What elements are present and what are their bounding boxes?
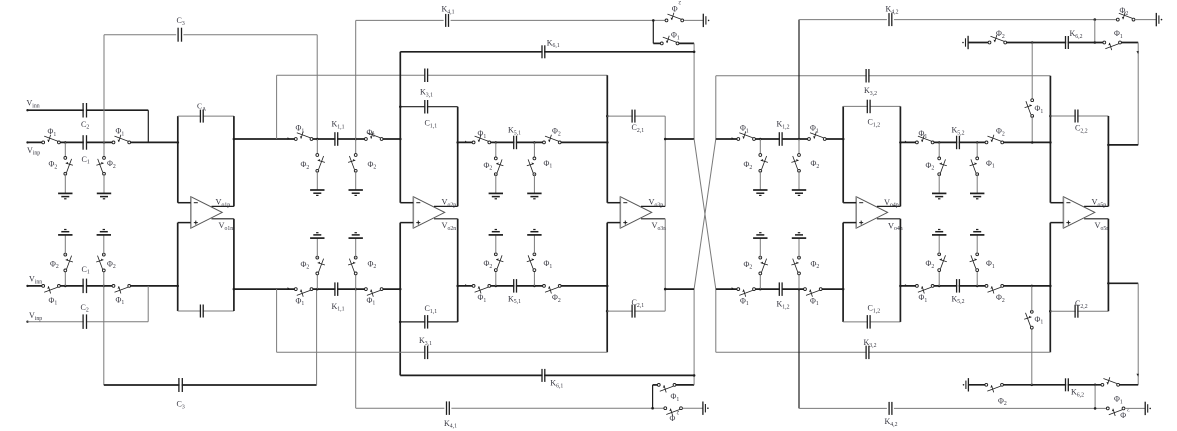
- switch Phi1 (K12 left): [740, 137, 753, 141]
- wire rise: [355, 273, 357, 289]
- wire C11 top rail: [400, 106, 457, 108]
- switch Phi1 (vertical, top): [1030, 102, 1034, 115]
- wire C21 bottom rail: [607, 310, 665, 312]
- ground up: [489, 234, 503, 236]
- switch Phi1 (top-left cluster): [663, 41, 676, 45]
- wire K31 bottom rail: [277, 351, 608, 353]
- wire to ground: [316, 171, 318, 190]
- signal tick: [732, 137, 735, 139]
- junction: [976, 285, 979, 288]
- capacitor K11: [336, 137, 338, 141]
- switch Phi1 (K11 bottom right): [367, 287, 380, 291]
- wire C11 bottom rail: [400, 321, 458, 323]
- switch Phi2 (bottom-right): [1109, 406, 1122, 410]
- wire Vinp bottom rail: [28, 321, 149, 323]
- junction: [664, 138, 667, 141]
- junction: [693, 374, 696, 377]
- switch Phi2 (top-left cluster): [668, 18, 681, 22]
- wire rise: [759, 273, 761, 289]
- wire op2 plus input: [400, 222, 413, 224]
- junction: [899, 141, 902, 144]
- capacitor CA: [201, 114, 203, 118]
- switch Phi1 (bottom-left cluster): [660, 383, 673, 387]
- capacitor K12 bottom: [780, 287, 782, 291]
- wire op1 plus input: [178, 222, 191, 224]
- wire stage5 output rail top: [1108, 144, 1138, 146]
- wire stage4 output rail bottom: [900, 285, 1050, 287]
- junction: [1031, 41, 1034, 44]
- wire K32 bottom riser: [715, 289, 717, 352]
- wire to ground: [938, 235, 940, 254]
- wire Phi1 bottom branch rail: [653, 384, 659, 386]
- wire Phi1 bottom riser lower: [1031, 328, 1033, 385]
- junction: [1094, 407, 1097, 410]
- wire op4 n output: [877, 218, 901, 220]
- ground up: [932, 234, 946, 236]
- wire op3 p output: [641, 205, 665, 207]
- signal tick: [1136, 374, 1138, 377]
- switch Phi1 (input series, top): [45, 140, 58, 144]
- wire Phi1 riser upper: [1031, 43, 1033, 101]
- wire drop: [938, 142, 940, 158]
- wire to ground: [355, 171, 357, 190]
- switch Phi1 to ground (K51 right): [532, 160, 536, 173]
- wire block4 left vertical: [842, 106, 844, 202]
- wire drop: [355, 139, 357, 155]
- wire Vinn corner down: [147, 110, 149, 142]
- wire Vinp corner up: [147, 286, 149, 322]
- wire Vinn bottom rail: [28, 285, 178, 287]
- switch Phi1 (K12 right): [811, 137, 824, 141]
- wire to ground: [533, 235, 535, 254]
- wire stage4 input rail: [716, 138, 843, 140]
- capacitor stub (bottom-right): [1144, 402, 1146, 415]
- capacitor C22: [1076, 114, 1078, 118]
- capacitor K52: [957, 140, 959, 144]
- capacitor C2 bottom: [84, 320, 86, 324]
- wire block5 bottom-left vertical: [1049, 223, 1051, 353]
- wire K62 rail: [968, 42, 1138, 44]
- wire drop: [533, 142, 535, 158]
- node Vinp (bottom input terminal): [26, 321, 28, 323]
- switch Phi1 (K62 right): [1106, 41, 1119, 45]
- junction: [606, 115, 609, 118]
- junction: [456, 285, 459, 288]
- capacitor C21: [633, 114, 635, 118]
- capacitor C11 bottom: [425, 320, 427, 324]
- capacitor C11: [425, 105, 427, 109]
- wire op5 p output: [1084, 205, 1108, 207]
- wire C3 bottom right riser: [316, 289, 318, 385]
- wire to ground: [316, 238, 318, 258]
- switch Phi1 to ground (K51 bottom right): [532, 256, 536, 269]
- capacitor K51 bottom: [514, 284, 516, 288]
- switch Phi1 (K51 bottom left): [475, 284, 488, 288]
- wire K31 rail: [277, 74, 608, 76]
- wire op3 n output: [641, 218, 665, 220]
- junction: [399, 288, 402, 291]
- wire drop: [759, 139, 761, 155]
- wire cluster right riser: [693, 43, 695, 139]
- wire K62-K42 bottom link: [1094, 385, 1096, 409]
- wire block4 bottom-left vertical: [842, 223, 844, 322]
- wire block2 bottom-left vertical: [399, 223, 401, 376]
- switch Phi1 to ground (K52 bottom right): [975, 256, 979, 269]
- wire block1 bottom-left vertical: [177, 223, 179, 311]
- junction: [354, 138, 357, 141]
- capacitor stub (K62 left): [962, 42, 964, 44]
- switch Phi2 (top-right): [1119, 18, 1132, 22]
- switch Phi2 to ground (K52 bottom left): [937, 256, 941, 269]
- capacitor K11 bottom: [336, 287, 338, 291]
- wire op5 plus input: [1050, 222, 1063, 224]
- wire C12 top rail: [843, 105, 900, 107]
- capacitor K31: [425, 73, 427, 77]
- junction: [938, 285, 941, 288]
- wire drop to Phi2: [64, 142, 66, 158]
- wire block3 right vertical top: [664, 116, 666, 206]
- wire C21 top rail: [607, 115, 665, 117]
- wire rise to Phi2: [103, 270, 105, 286]
- junction: [664, 288, 667, 291]
- wire op2 p output: [434, 205, 458, 207]
- ground: [349, 189, 363, 191]
- wire to ground: [938, 174, 940, 193]
- junction: [533, 285, 536, 288]
- wire rise: [938, 270, 940, 286]
- signal tick: [732, 287, 735, 289]
- capacitor K52 bottom: [957, 284, 959, 288]
- wire drop to Phi2: [103, 142, 105, 158]
- wire C3 bottom riser: [103, 286, 105, 385]
- ground up: [97, 234, 111, 236]
- capacitor C12 bottom: [868, 320, 870, 324]
- capacitor K62: [1066, 40, 1068, 44]
- junction: [316, 288, 319, 291]
- junction: [495, 285, 498, 288]
- wire to ground: [976, 235, 978, 254]
- wire CA bottom rail: [178, 310, 234, 312]
- junction: [233, 138, 236, 141]
- capacitor K62 bottom: [1066, 383, 1068, 387]
- wire stage2 output rail: [458, 141, 608, 143]
- wire to ground: [798, 171, 800, 190]
- junction: [899, 285, 902, 288]
- wire K62 bottom rail: [968, 384, 1138, 386]
- ground: [970, 192, 984, 194]
- wire op3 minus input: [607, 202, 620, 204]
- switch Phi1 (input series, bottom): [45, 284, 58, 288]
- wire block2 left vertical: [399, 52, 401, 203]
- switch Phi2 (K52 right): [988, 140, 1001, 144]
- signal tick: [288, 287, 291, 289]
- wire op2 minus input: [400, 202, 413, 204]
- junction: [759, 288, 762, 291]
- ground up: [310, 237, 324, 239]
- junction: [606, 310, 609, 313]
- switch Phi2 to ground (input, right): [102, 159, 106, 172]
- capacitor K41 bottom: [447, 406, 449, 410]
- capacitor K12: [780, 137, 782, 141]
- wire K61 bottom rail: [400, 374, 694, 376]
- wire rise: [533, 270, 535, 286]
- signal tick: [1136, 51, 1138, 54]
- op-amp U5: [1063, 197, 1094, 229]
- wire op5 n output: [1084, 218, 1108, 220]
- wire to ground: [103, 174, 105, 194]
- wire block1 right vertical top: [233, 116, 235, 206]
- wire cluster drop: [652, 20, 654, 43]
- wire drop: [495, 142, 497, 158]
- wire drop: [798, 139, 800, 155]
- wire cluster riser: [693, 289, 695, 385]
- junction: [399, 105, 402, 108]
- junction: [1049, 141, 1052, 144]
- wire rise: [798, 273, 800, 289]
- junction: [456, 141, 459, 144]
- node Vinn (top input terminal): [26, 109, 28, 111]
- wire Phi1 riser lower: [1031, 116, 1033, 142]
- junction: [1031, 285, 1034, 288]
- capacitor C3: [179, 33, 181, 37]
- switch Phi2 to ground (input bottom, left): [63, 256, 67, 269]
- wire rise: [316, 273, 318, 289]
- capacitor C3 bottom: [180, 383, 182, 387]
- wire drop: [976, 142, 978, 158]
- wire block5 right vertical top: [1107, 116, 1109, 206]
- wire K32 left riser: [715, 76, 717, 139]
- ground: [753, 189, 767, 191]
- junction: [316, 138, 319, 141]
- ground: [527, 192, 541, 194]
- wire K42 bottom riser: [798, 289, 800, 408]
- junction: [1049, 115, 1052, 118]
- junction: [533, 141, 536, 144]
- wire C22 top rail: [1050, 115, 1108, 117]
- wire block4 right vertical top: [899, 106, 901, 206]
- ground: [489, 192, 503, 194]
- wire crossover diagonal B: [694, 139, 716, 289]
- capacitor K42 bottom: [890, 406, 892, 410]
- capacitor K32 bottom: [867, 350, 869, 354]
- junction: [798, 138, 801, 141]
- junction: [651, 407, 654, 410]
- signal tick: [465, 284, 468, 286]
- junction: [64, 285, 67, 288]
- ground: [58, 192, 72, 194]
- junction: [1094, 384, 1097, 387]
- capacitor stub (top-right): [1155, 13, 1157, 26]
- junction input node A: [64, 141, 67, 144]
- wire C3 rail: [104, 34, 176, 36]
- switch Phi2 (bottom-left cluster): [667, 406, 680, 410]
- wire K42 riser: [798, 20, 800, 139]
- junction: [1094, 41, 1097, 44]
- svg-text:Φ: Φ: [670, 414, 676, 423]
- wire block3 bottom-right vertical: [664, 219, 666, 311]
- switch Phi1 (input series 2, bottom): [115, 284, 128, 288]
- wire to ground: [759, 171, 761, 190]
- wire block4 bottom-right vertical: [899, 219, 901, 322]
- switch Phi2 to ground (K51 left): [494, 160, 498, 173]
- junction: [399, 321, 402, 324]
- wire to ground: [64, 174, 66, 194]
- junction: [842, 138, 845, 141]
- wire op3 plus input: [607, 222, 620, 224]
- wire block5 left vertical: [1049, 76, 1051, 203]
- op-amp U4: [856, 197, 887, 229]
- capacitor K61: [543, 50, 545, 54]
- wire to ground: [64, 235, 66, 255]
- wire drop: [316, 139, 318, 155]
- junction: [103, 285, 106, 288]
- switch Phi2 (K51 bottom right): [546, 284, 559, 288]
- capacitor K31 bottom: [425, 350, 427, 354]
- wire to cap stub: [683, 407, 703, 409]
- switch Phi1 (K12 bottom right): [807, 287, 820, 291]
- wire cluster rise: [652, 385, 654, 408]
- wire block2 right vertical top: [457, 107, 459, 207]
- switch Phi1 (vertical, bottom): [1030, 313, 1034, 326]
- ground: [97, 192, 111, 194]
- wire op2 n output: [434, 218, 458, 220]
- wire K32 rail: [716, 75, 1051, 77]
- switch Phi2 (K62 bottom left): [988, 383, 1001, 387]
- ground up: [792, 237, 806, 239]
- switch Phi1 (K52 bottom left): [918, 284, 931, 288]
- junction: [652, 19, 655, 22]
- switch Phi1 (K11 right): [367, 137, 380, 141]
- wire stage4 output rail: [900, 141, 1050, 143]
- signal tick: [905, 141, 908, 143]
- wire crossover diagonal A: [694, 139, 716, 289]
- switch Phi2 to ground (K11 bottom right): [354, 259, 358, 272]
- junction: [1094, 18, 1097, 21]
- wire corner to stage5 output: [1137, 43, 1139, 145]
- wire K31 left riser: [276, 75, 278, 139]
- wire to cap stub: [684, 19, 703, 21]
- capacitor K41: [446, 18, 448, 22]
- capacitor CA bottom: [201, 309, 203, 313]
- switch Phi2 to ground (K11 left): [315, 157, 319, 170]
- wire rise to Phi2: [64, 270, 66, 286]
- switch Phi2 to ground (input bottom, right): [102, 256, 106, 269]
- wire to ground: [495, 174, 497, 193]
- wire to ground: [759, 238, 761, 258]
- switch Phi2 (K62 left): [991, 41, 1004, 45]
- junction: [693, 51, 696, 54]
- switch Phi2 (K52 bottom right): [988, 284, 1001, 288]
- capacitor stub (top-left): [702, 14, 704, 27]
- wire Vinp rail: [28, 141, 178, 143]
- svg-text:Φ: Φ: [1120, 411, 1126, 420]
- wire to cap stub: [1125, 407, 1145, 409]
- ground: [932, 192, 946, 194]
- wire K41 bottom rail: [356, 407, 445, 409]
- ground up: [527, 234, 541, 236]
- junction: [759, 138, 762, 141]
- wire to ground: [355, 238, 357, 258]
- switch Phi1 (K11 bottom left): [297, 287, 310, 291]
- wire K41 bottom riser: [355, 289, 357, 408]
- junction: [1031, 384, 1034, 387]
- wire block3 left vertical: [606, 75, 608, 202]
- switch Phi1 (K12 bottom left): [740, 287, 753, 291]
- wire stage3 output rail: [665, 138, 694, 140]
- capacitor C2: [84, 108, 86, 112]
- junction: [1107, 282, 1110, 285]
- junction: [177, 141, 180, 144]
- ground: [310, 189, 324, 191]
- switch Phi2 to ground (K11 right): [354, 157, 358, 170]
- svg-text:2: 2: [676, 409, 679, 415]
- signal tick: [465, 141, 468, 143]
- wire C3 right riser: [316, 35, 318, 139]
- wire K61 rail: [400, 51, 694, 53]
- junction: [1049, 310, 1052, 313]
- junction: [354, 288, 357, 291]
- node Vinn (bottom input terminal): [26, 285, 28, 287]
- capacitor stub (K62 bottom left): [963, 384, 965, 386]
- switch Phi1 (K51 left): [475, 140, 488, 144]
- wire Vinn rail: [28, 109, 149, 111]
- wire to ground: [976, 174, 978, 193]
- wire K41 rail: [356, 19, 444, 21]
- wire to ground: [495, 235, 497, 254]
- wire stage1 output rail: [234, 138, 400, 140]
- switch Phi2 (K51 right): [546, 140, 559, 144]
- wire op4 p output: [877, 205, 901, 207]
- wire output riser to bottom cluster: [1137, 283, 1139, 385]
- wire to ground: [798, 238, 800, 258]
- op-amp U3: [620, 197, 651, 229]
- ground up: [58, 234, 72, 236]
- capacitor C1 bottom: [84, 284, 86, 288]
- junction: [606, 141, 609, 144]
- wire Phi1 bottom riser upper: [1031, 286, 1033, 312]
- switch Phi1 (input series 2, top): [115, 140, 128, 144]
- junction: [606, 285, 609, 288]
- switch Phi1 (K11 left): [297, 137, 310, 141]
- wire stage4 input rail bottom: [716, 288, 843, 290]
- wire block5 bottom-right vertical: [1107, 219, 1109, 311]
- wire C3 bottom rail: [104, 384, 317, 386]
- wire K42-K62 link: [1094, 20, 1096, 43]
- junction: [976, 141, 979, 144]
- ground up: [970, 234, 984, 236]
- junction input node B: [103, 141, 106, 144]
- junction: [1049, 285, 1052, 288]
- wire op1 n output: [212, 218, 234, 220]
- switch Phi2 to ground (K12 bottom right): [797, 259, 801, 272]
- wire op1 minus input: [178, 202, 191, 204]
- capacitor C1: [84, 140, 86, 144]
- switch Phi1 to ground (K52 right): [975, 160, 979, 173]
- junction: [1031, 141, 1034, 144]
- ground up: [753, 237, 767, 239]
- wire K41 riser: [355, 20, 357, 139]
- wire op4 minus input: [843, 202, 856, 204]
- wire CA top rail: [178, 115, 234, 117]
- wire K42 rail: [799, 19, 887, 21]
- switch Phi1 (K62 bottom right): [1104, 383, 1117, 387]
- op-amp U2: [413, 197, 444, 229]
- junction: [233, 288, 236, 291]
- wire op4 plus input: [843, 222, 856, 224]
- capacitor K51: [514, 140, 516, 144]
- wire stage1 output rail bottom: [234, 288, 400, 290]
- junction: [399, 138, 402, 141]
